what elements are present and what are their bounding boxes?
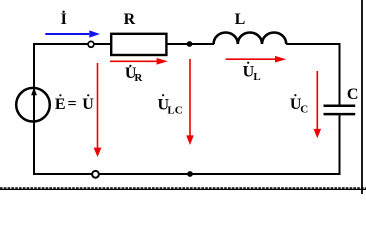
node a (open terminal circle, top): [88, 41, 94, 47]
voltage arrow for E=U (red, down, left): [97, 63, 99, 149]
wire: node a to resistor R: [94, 43, 112, 45]
svg-text:=: =: [68, 96, 77, 113]
wire: resistor to inductor: [166, 43, 214, 45]
svg-text:E: E: [55, 96, 66, 113]
wire: inductor to top-right corner: [286, 43, 340, 45]
frame border: right edge: [361, 0, 363, 194]
svg-text:L: L: [253, 71, 260, 83]
wire: bottom return wire: [33, 173, 341, 175]
resistor R: [111, 34, 166, 55]
wire: right vertical branch, above capacitor: [339, 43, 341, 105]
capacitor C bottom plate: [324, 113, 356, 116]
wire: right vertical branch, below capacitor: [339, 115, 341, 175]
wire: top segment from left corner to node a: [33, 43, 88, 45]
current arrow I (blue): [45, 33, 89, 35]
node b (open terminal circle, bottom): [92, 171, 99, 178]
svg-text:R: R: [124, 11, 136, 28]
svg-text:U: U: [82, 96, 94, 113]
voltage arrow UR (red, right): [110, 60, 157, 62]
voltage arrow UC (red, down, right): [316, 71, 318, 130]
capacitor C top plate: [324, 105, 356, 108]
dot above U of E=U: [87, 94, 89, 96]
junction dot (bottom): [187, 171, 193, 177]
svg-text:I: I: [61, 11, 67, 28]
source arrow head (up): [31, 88, 37, 96]
svg-text:L: L: [235, 11, 246, 28]
source E (circle symbol): [16, 88, 50, 122]
voltage arrow ULC (red, down, middle): [189, 59, 191, 136]
voltage arrow UL (red, right): [226, 58, 276, 60]
dot above E: [59, 94, 61, 96]
inductor L (three humps): [214, 32, 287, 44]
frame border: bottom edge: [0, 188, 366, 190]
junction dot (top, between R and L): [187, 41, 193, 47]
svg-text:C: C: [300, 103, 308, 115]
wire: left vertical branch: [33, 43, 35, 175]
svg-text:LC: LC: [167, 105, 182, 117]
svg-text:C: C: [347, 86, 359, 103]
svg-text:R: R: [134, 72, 143, 84]
